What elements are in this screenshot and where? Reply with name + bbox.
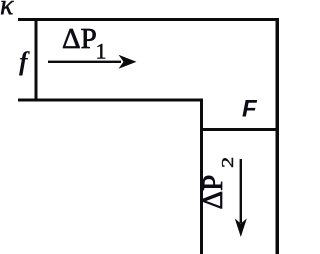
svg-text:2: 2 — [218, 157, 237, 168]
svg-text:F: F — [242, 96, 258, 123]
svg-text:1: 1 — [96, 39, 107, 64]
svg-text:ΔP: ΔP — [62, 23, 97, 55]
svg-text:κ: κ — [0, 0, 14, 21]
svg-text:f: f — [19, 47, 30, 76]
svg-text:ΔP: ΔP — [197, 175, 229, 210]
